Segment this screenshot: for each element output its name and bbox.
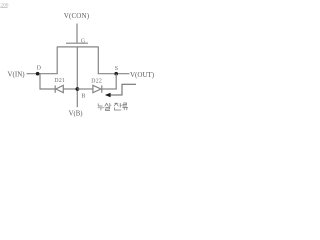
diode D22 triangle (apex right) <box>93 85 101 92</box>
wire: D22 to upturn <box>102 88 117 90</box>
wire: rail left from V(IN) <box>27 73 58 75</box>
wire: right leg (source) <box>97 47 99 74</box>
diode D22 cathode bar <box>101 85 103 92</box>
diode D21 triangle (apex left) <box>56 85 63 92</box>
diode D21 cathode bar <box>54 85 56 92</box>
wire: drop from node D to diode row <box>40 74 55 89</box>
glyph 누 <box>98 103 105 110</box>
leakage current arrow (stepped, pointing left) <box>105 84 136 97</box>
svg-text:S: S <box>115 66 118 72</box>
glyph 전 <box>114 103 122 110</box>
node B dot <box>76 87 80 91</box>
node D dot <box>36 72 40 76</box>
svg-text:D: D <box>37 66 42 72</box>
wire: gate lead from V(CON) <box>76 24 78 44</box>
svg-text:V(CON): V(CON) <box>64 12 90 20</box>
figure label 200 (underlined) <box>0 2 8 8</box>
svg-text:B: B <box>81 93 85 99</box>
transistor M1 channel bar <box>57 46 99 48</box>
svg-text:V(IN): V(IN) <box>8 71 26 79</box>
glyph 류 <box>122 103 128 110</box>
annotation text: 누설 전류 (leakage current), drawn as paths <box>98 103 128 110</box>
wire: body lead down to V(B) <box>76 47 78 107</box>
wire: upturn to node S <box>115 74 117 89</box>
svg-text:V(B): V(B) <box>69 111 83 118</box>
glyph 설 <box>105 103 112 110</box>
wire: node B to D22 <box>77 88 93 90</box>
wire: D21 to node B <box>63 88 77 90</box>
svg-text:D21: D21 <box>54 78 65 84</box>
svg-text:D22: D22 <box>91 79 102 85</box>
node S dot <box>114 72 118 76</box>
svg-text:V(OUT): V(OUT) <box>130 71 155 79</box>
transistor M1 gate bar <box>66 42 88 44</box>
wire: left leg (drain) <box>56 47 58 74</box>
wire: rail right to V(OUT) <box>98 73 130 75</box>
